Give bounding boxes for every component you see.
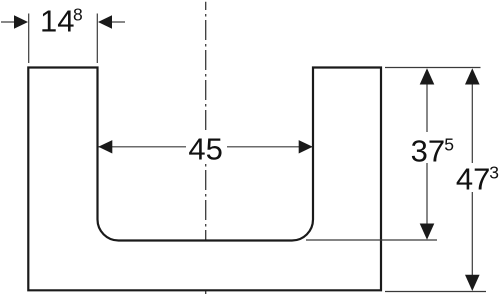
extension line bottom right (shape bottom level y=291.5) <box>385 291 486 293</box>
halo behind 45 label <box>187 131 227 164</box>
arrow 37.5 top (points up at y=68.2) <box>420 68 435 84</box>
extension line left (for 14.8, at x=28.7) <box>28 14 30 64</box>
dimension 37.5 vertical line upper segment (x=427) <box>426 70 428 132</box>
arrow 47.3 bottom (points down at y=291) <box>465 275 480 291</box>
dimension 45: left segment <box>99 146 187 148</box>
halo behind 37.5 label <box>409 133 459 164</box>
dimension 45: right segment <box>227 146 313 148</box>
dimension 37.5 vertical line lower segment <box>426 163 428 238</box>
svg-text:3: 3 <box>489 163 499 183</box>
dimension 47.3 vertical line upper segment (x=472.3) <box>471 70 473 163</box>
arrow 14.8 right (points left at x=98) <box>98 15 112 28</box>
dimension 14.8: right tail <box>112 21 126 23</box>
svg-text:37: 37 <box>411 133 445 168</box>
arrow 14.8 left (points right at x=28) <box>14 15 28 28</box>
extension line mid right (U inner bottom level y=240) <box>306 239 437 241</box>
svg-text:47: 47 <box>456 161 490 196</box>
svg-text:5: 5 <box>444 135 454 155</box>
arrow 45 left (points left at x=98) <box>98 140 112 153</box>
extension line right of left tower (for 14.8, at x=97.3) <box>96 14 98 64</box>
extension line top right (tower top level y=67.5) <box>385 67 481 69</box>
U-shaped cabinet profile outline <box>28 68 381 291</box>
halo behind 47.3 label <box>452 164 500 193</box>
arrow 37.5 bottom (points down at y=239.8) <box>420 224 435 240</box>
arrow 45 right (points right at x=313) <box>299 140 313 153</box>
centerline (vertical dash-dot axis) <box>205 2 207 294</box>
svg-text:45: 45 <box>188 132 222 167</box>
arrow 47.3 top (points up at y=68.2) <box>465 68 480 84</box>
svg-text:8: 8 <box>73 5 83 25</box>
dimension 14.8: left tail <box>1 21 15 23</box>
dimension 47.3 vertical line lower segment <box>471 192 473 290</box>
svg-text:14: 14 <box>40 4 74 39</box>
